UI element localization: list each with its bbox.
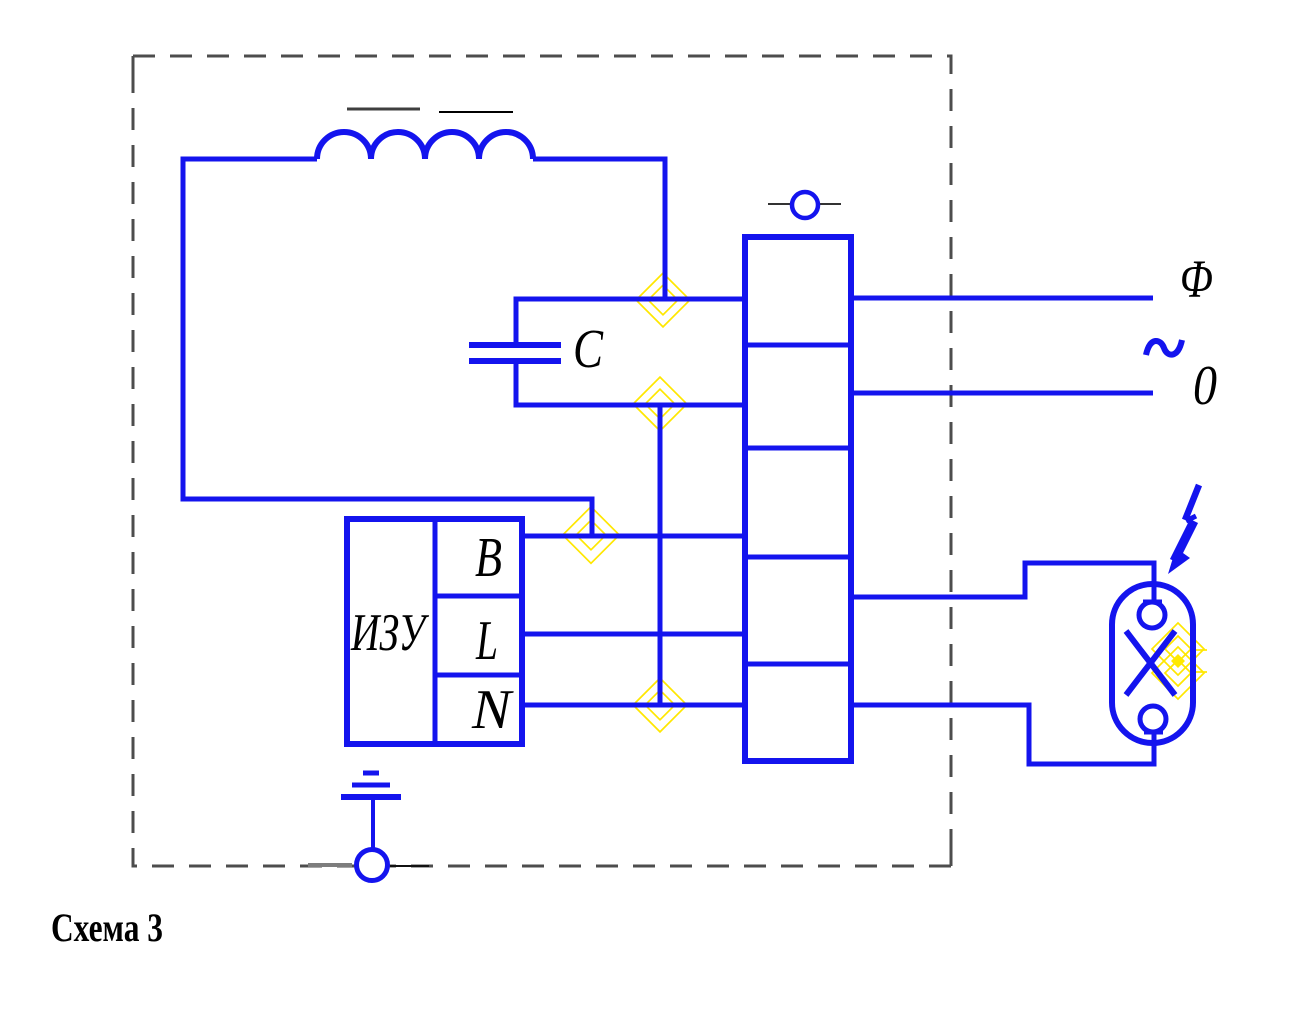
svg-text:ИЗУ: ИЗУ: [350, 604, 429, 662]
svg-text:L: L: [475, 610, 498, 672]
svg-text:B: B: [475, 527, 502, 589]
svg-text:0: 0: [1193, 355, 1217, 417]
svg-text:Схема 3: Схема 3: [51, 905, 163, 950]
svg-text:N: N: [471, 679, 514, 741]
svg-text:C: C: [573, 318, 604, 379]
svg-text:Φ: Φ: [1180, 249, 1213, 309]
